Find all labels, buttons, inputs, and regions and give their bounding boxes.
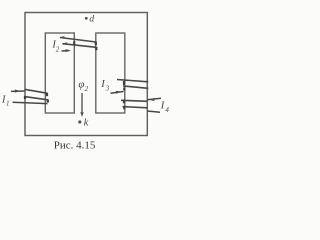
flux phi2 arrow (81, 93, 83, 114)
winding W1 turn C / lower lead (13, 102, 48, 103)
winding W3 turn 1 (117, 80, 148, 82)
core right window (96, 33, 125, 113)
winding W1 turn B (25, 97, 48, 100)
winding W3 turn 2 (123, 86, 148, 88)
svg-text:I: I (100, 79, 105, 90)
current I3 lead arrow (111, 92, 124, 94)
winding W1 turn A (25, 89, 48, 93)
winding W4 knots (123, 100, 125, 104)
svg-text:φ: φ (78, 79, 84, 91)
winding W4 turn 2 (123, 107, 148, 108)
winding W2 turn 2 (63, 44, 97, 48)
core outer boundary (25, 13, 147, 136)
svg-text:I: I (160, 100, 165, 111)
current I2 lead arrow (62, 50, 70, 52)
winding W2 turn 1 (60, 38, 96, 43)
winding W2 knot on left limb edge (73, 41, 75, 45)
winding W4 lower lead (147, 111, 160, 112)
node k (78, 120, 81, 123)
winding W3 knots (123, 81, 125, 85)
svg-text:4: 4 (165, 106, 169, 114)
winding W4 turn 1 (121, 100, 147, 101)
svg-text:3: 3 (105, 85, 110, 93)
current I4 lead arrow (147, 98, 161, 99)
svg-text:2: 2 (56, 46, 60, 54)
svg-text:k: k (84, 118, 89, 129)
node d (85, 17, 88, 20)
svg-text:2: 2 (85, 85, 89, 93)
svg-text:d: d (89, 14, 94, 24)
svg-text:Рис. 4.15: Рис. 4.15 (54, 139, 96, 151)
svg-text:1: 1 (6, 100, 10, 108)
core left window (45, 33, 74, 113)
current I1 lead arrow (11, 90, 25, 92)
winding W1 knot on outer edge (24, 96, 26, 99)
